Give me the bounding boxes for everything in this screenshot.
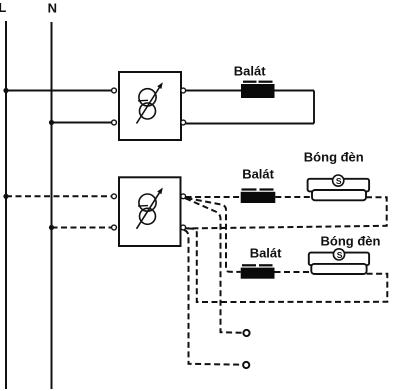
wire lamp2 right down and return to U2 lower dashed [186,228,387,302]
wire U2 to ballast B2 dashed [186,196,241,198]
svg-text:Bóng đèn: Bóng đèn [321,233,381,248]
wire N to U2 dashed [52,227,115,229]
dimmer U2 terminal pin left-bottom [112,225,117,230]
svg-text:L: L [0,0,6,15]
wire lamp1 to right, down, return to U2 dashed [186,197,387,228]
junction N-box1 [49,120,54,125]
dimmer U1 terminal pin left-top [112,88,117,93]
dimmer U2 (variable transformer box) [112,177,186,246]
dimmer U2 terminal pin right-top [181,194,186,199]
lamp LP2 (fluorescent fixture) [309,249,369,274]
dimmer U1 winding circle upper [139,89,156,106]
junction N-box2 [49,225,54,230]
junction L-box2 [3,194,8,199]
dimmer U2 terminal pin left-top [112,194,117,199]
wire U2 upper to ballast B3 dashed [187,198,241,272]
dimmer U1 winding circle lower [140,103,156,119]
wire B2 to lamp1 dashed [275,196,312,198]
dimmer U2 winding circle upper [139,194,156,211]
svg-text:S: S [336,176,342,186]
dimmer U2 terminal pin right-bottom [181,225,186,230]
lamp LP2 starter S [333,249,344,260]
dimmer U1 terminal pin right-bottom [181,120,186,125]
lamp LP1 starter bracket [308,179,370,192]
junction L-box1 [3,88,8,93]
dimmer U2 body [119,177,181,246]
svg-text:Balát: Balát [250,246,282,261]
line N [51,22,53,389]
dimmer U1 (variable transformer box) [112,72,186,140]
svg-text:Bóng đèn: Bóng đèn [304,149,364,164]
lamp LP1 (fluorescent fixture) [308,175,370,200]
node circle2 [243,362,249,368]
wire L to U2 dashed [6,195,114,197]
wire right edge down [313,91,315,124]
dimmer U1 terminal pin right-top [181,88,186,93]
line L [5,21,7,389]
lamp LP1 tube [312,190,366,200]
lamp LP1 starter S [333,175,344,186]
dimmer U2 winding circle lower [140,208,156,224]
dimmer U1 terminal pin left-bottom [112,120,117,125]
svg-text:Balát: Balát [234,63,266,78]
ballast B3 [241,264,275,279]
svg-text:Balát: Balát [242,167,274,182]
wire U2 lower to node circle2 dashed [184,230,242,365]
wire L to U1 [6,90,114,92]
wire B3 to lamp2 dashed [275,271,312,273]
ballast B1 [241,81,275,98]
wire B1 to right edge [275,90,315,92]
dimmer U1 adjustment arrow [137,87,161,124]
wire return to U1 [186,123,314,125]
wire U1 to ballast B1 [186,90,241,92]
svg-text:S: S [337,250,343,260]
ballast B2 [241,188,276,203]
wire N to U1 [52,122,115,124]
lamp LP2 starter bracket [309,253,369,266]
svg-text:N: N [48,0,57,15]
lamp LP2 tube [311,264,366,274]
dimmer U2 adjustment arrow [137,192,161,229]
dimmer U1 tap tick [138,99,148,102]
wire U2 upper to node circle1 dashed [185,198,242,333]
dimmer U2 tap tick [138,205,148,208]
node circle1 [243,330,249,336]
dimmer U1 body [119,72,181,140]
